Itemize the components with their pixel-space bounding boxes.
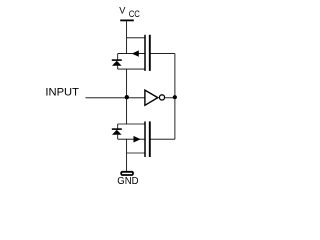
transistor Q1 PMOS [132, 35, 150, 71]
wire NMOS source to GND [127, 152, 145, 154]
wire NMOS gate to feedback node [150, 138, 175, 140]
wire NMOS drain line [118, 123, 145, 125]
wire PMOS source to VCC [127, 37, 145, 39]
wire INPUT [86, 97, 145, 99]
wire PMOS drain line [118, 68, 145, 70]
node input junction [125, 95, 129, 99]
svg-text:V: V [119, 6, 126, 16]
wire PMOS gate to feedback node [150, 53, 175, 55]
wire feedback vertical [174, 54, 176, 140]
wire GND vertical [126, 139, 128, 171]
wire drain down to input node [126, 69, 128, 98]
ground symbol [121, 172, 133, 175]
svg-text:CC: CC [129, 8, 140, 19]
wire NMOS bulk line [118, 138, 145, 140]
transistor Q2 NMOS [134, 121, 150, 157]
diode D1 (input to VCC clamp) [112, 54, 122, 70]
wire PMOS bulk line [118, 53, 145, 55]
wire inverter output [165, 97, 175, 99]
VCC label [119, 6, 140, 20]
svg-text:GND: GND [117, 176, 138, 187]
wire input node down to NMOS drain [126, 98, 128, 124]
VCC power rail bar [120, 19, 134, 21]
node output junction [173, 95, 177, 99]
diode D2 (GND to input clamp) [112, 124, 122, 139]
wire VCC rail down to bulk node [126, 21, 128, 53]
inverter U1 [145, 90, 165, 105]
svg-text:INPUT: INPUT [45, 87, 79, 99]
